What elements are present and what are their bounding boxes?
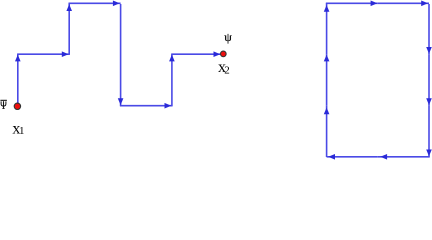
wilson loop: bottom edge link 2 leftward [327, 156, 378, 158]
wilson loop: top edge link 1 rightward [326, 2, 378, 4]
wire: link 1, from x1 upward [17, 54, 19, 104]
wire: link 6, rightward on bottom row [120, 105, 172, 107]
label x1 [12, 120, 24, 137]
label psi-bar at x1 [0, 100, 7, 108]
node x1: red endpoint dot [14, 103, 20, 109]
arrowhead down, right edge link 1 [426, 47, 432, 54]
arrowhead right, end of link 6 [165, 103, 172, 109]
wilson loop: left edge link 2 upward [326, 54, 328, 105]
wilson loop: bottom edge link 1 leftward [378, 156, 430, 158]
wilson loop: top edge link 2 rightward [378, 2, 429, 4]
arrowhead right, top edge link 2 [421, 1, 428, 7]
wire: link 7, upward [171, 54, 173, 106]
arrowhead up, left edge link 2 [324, 55, 330, 62]
wilson loop: left edge link 3 upward [326, 3, 328, 54]
svg-text:2: 2 [224, 65, 230, 77]
arrowhead up, end of link 7 [169, 55, 175, 62]
wire: link 4, rightward on top row [69, 2, 121, 4]
svg-text:ψ: ψ [224, 30, 232, 44]
wilson loop: right edge link 3 downward [428, 106, 430, 157]
wire: double link 5, downward [120, 4, 122, 106]
wilson loop: right edge link 2 downward [428, 54, 430, 105]
wire: link 3, upward [68, 3, 70, 55]
node x2: red endpoint dot [220, 51, 226, 57]
label x2 [218, 59, 230, 77]
svg-text:1: 1 [19, 125, 25, 137]
arrowhead left, bottom edge link 1 [380, 154, 387, 160]
arrowhead right, end of link 4 [113, 1, 120, 7]
arrowhead up, end of link 1 [15, 55, 21, 62]
arrowhead down, right edge link 3 [426, 150, 432, 157]
wilson loop: right edge link 1 downward [428, 4, 430, 54]
arrowhead up, end of link 3 [66, 4, 72, 11]
wire: link 2, rightward on row y=54 [17, 53, 69, 55]
arrowhead right, end of link 8 at x2 [214, 51, 221, 57]
arrowhead down, end of link 5 [118, 98, 124, 105]
arrowhead up, left edge link 1 [324, 108, 330, 115]
arrowhead right, top edge link 1 [371, 1, 378, 7]
arrowhead right, end of link 2 [62, 51, 69, 57]
arrowhead up, left edge link 3 [324, 5, 330, 12]
wilson loop: left edge link 1 upward [326, 106, 328, 157]
arrowhead down, right edge link 2 [426, 98, 432, 105]
wire: link 8, rightward into x2 [171, 53, 220, 55]
arrowhead left, bottom edge link 2 [328, 154, 335, 160]
